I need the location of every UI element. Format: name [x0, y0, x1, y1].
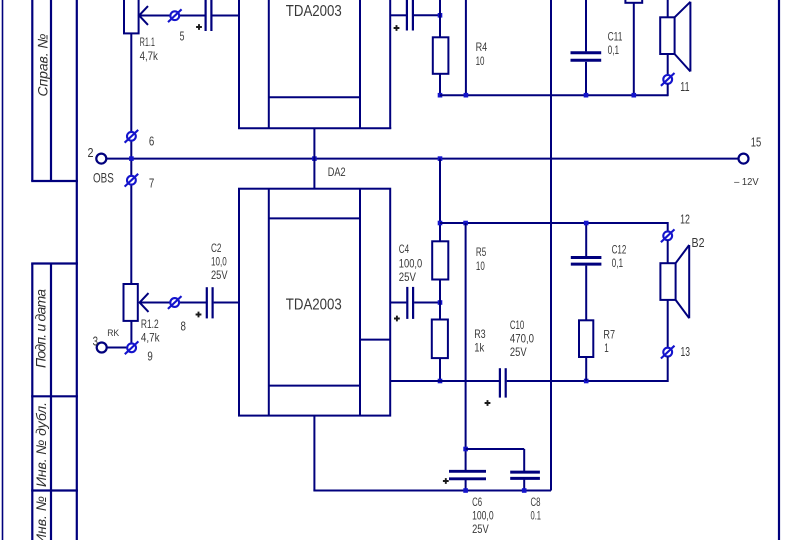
capacitor C2 10,0 25V: [196, 242, 228, 319]
capacitor C6 100,0 25V: [443, 471, 494, 536]
svg-text:2: 2: [88, 146, 94, 160]
contact 13: [661, 345, 690, 359]
resistor R4 10: [433, 37, 488, 74]
svg-text:C12: C12: [612, 244, 627, 257]
svg-text:100,0: 100,0: [472, 510, 494, 523]
svg-text:C11: C11: [608, 31, 623, 44]
svg-text:12: 12: [680, 213, 690, 227]
junction C8/bottom bus: [522, 488, 527, 493]
wire C3 to node at R4 rail: [414, 14, 440, 16]
resistor R5 10: [432, 241, 486, 279]
junction C6/bottom bus: [463, 488, 468, 493]
wire DA1 pin to C3: [390, 14, 406, 16]
svg-text:10,0: 10,0: [211, 256, 227, 269]
capacitor C1 (electrolytic, cropped label): [196, 0, 211, 31]
wire vertical feedback branch (cropped): [465, 0, 467, 95]
svg-text:OBS: OBS: [93, 169, 114, 185]
junction rail/lower bus: [438, 221, 443, 226]
terminal 15 (-12V): [734, 136, 761, 188]
wire terminal 3 to contact 9: [106, 347, 131, 349]
svg-text:DA2: DA2: [328, 166, 346, 179]
capacitor C12 0,1: [571, 223, 627, 320]
svg-text:4,7k: 4,7k: [141, 331, 160, 344]
svg-text:470,0: 470,0: [510, 333, 535, 346]
svg-text:RK: RK: [107, 328, 120, 339]
contact 6: [125, 130, 155, 149]
wire DA2 ground pin down: [313, 416, 315, 491]
junction feedback/bus: [464, 93, 469, 98]
junction R6/bus: [632, 93, 637, 98]
junction C12/bus: [584, 221, 589, 226]
wire C2 to DA2 input: [214, 302, 239, 304]
wire rail rowB top: [439, 159, 441, 242]
junction R7/output bus: [584, 379, 589, 384]
wire R3 bottom to output bus: [439, 358, 441, 381]
wire common rail -12V row: [106, 158, 739, 160]
svg-text:5: 5: [180, 30, 185, 44]
wire R1.2 bottom to contact 9: [130, 321, 132, 344]
svg-text:R1.2: R1.2: [141, 318, 159, 331]
wire DA2 output to C10: [390, 380, 499, 382]
junction C3/R4 rail: [438, 13, 443, 18]
junction bus/C6 column: [463, 221, 468, 226]
svg-text:R4: R4: [476, 41, 488, 54]
svg-text:8: 8: [181, 319, 186, 333]
terminal 2 (OBS common): [88, 146, 114, 185]
svg-text:25V: 25V: [510, 346, 527, 359]
svg-text:25V: 25V: [472, 523, 489, 536]
svg-text:C8: C8: [531, 496, 541, 509]
svg-text:B2: B2: [692, 236, 705, 250]
svg-text:TDA2003: TDA2003: [286, 3, 342, 20]
wire contact 13 to output bus corner: [667, 357, 669, 383]
wire lower mid bus: [440, 222, 668, 224]
svg-text:10: 10: [476, 260, 485, 273]
junction C11/bus: [584, 93, 589, 98]
wire R5 to R3: [439, 280, 441, 320]
op-amp U-DA1 (TDA2003, top IC, partially cropped): [238, 0, 391, 129]
loudspeaker B1: [660, 0, 690, 75]
wire upper ground bus: [440, 94, 668, 96]
svg-text:0,1: 0,1: [612, 257, 624, 270]
svg-text:25V: 25V: [211, 269, 228, 282]
svg-text:Подп. и дата: Подп. и дата: [33, 289, 49, 368]
svg-text:13: 13: [681, 345, 691, 359]
potentiometer R1.1 4,7k: [124, 0, 158, 284]
svg-text:3: 3: [93, 335, 98, 349]
wire R4 bottom to bus: [439, 74, 441, 95]
loudspeaker B2: [660, 236, 704, 318]
resistor R3 1k: [432, 320, 486, 359]
capacitor C3 (electrolytic, cropped label): [394, 0, 413, 31]
svg-text:15: 15: [751, 136, 762, 150]
svg-text:1k: 1k: [474, 341, 484, 354]
junction rail/R1 column: [129, 156, 134, 161]
svg-text:9: 9: [147, 349, 152, 363]
contact 9: [125, 341, 153, 363]
svg-text:4,7k: 4,7k: [140, 50, 158, 63]
wire rail above R4: [439, 0, 441, 37]
svg-text:C4: C4: [399, 243, 410, 256]
svg-text:R7: R7: [603, 329, 615, 342]
svg-text:0.1: 0.1: [531, 510, 542, 523]
wire C10 to speaker branch: [507, 380, 668, 382]
svg-text:TDA2003: TDA2003: [286, 296, 342, 313]
wire R1.2 wiper to C2: [140, 302, 206, 304]
wire bus corner to contact 12: [667, 222, 669, 231]
svg-text:Справ. №: Справ. №: [35, 34, 51, 97]
resistor R6 (cropped at top): [625, 0, 642, 95]
svg-text:C6: C6: [472, 496, 482, 509]
wire R1.1 wiper to C1: [139, 15, 205, 17]
junction R3/output bus: [438, 379, 443, 384]
contact 8: [168, 296, 186, 333]
svg-text:R5: R5: [476, 246, 487, 259]
svg-text:25V: 25V: [399, 271, 416, 284]
junction C6/C8 tap: [463, 447, 468, 452]
contact 11: [661, 73, 690, 94]
wire contact 11 to bus corner: [667, 84, 669, 96]
svg-text:C10: C10: [510, 319, 525, 332]
wire C8 branch horizontal: [466, 448, 525, 450]
junction R4/bus: [438, 93, 443, 98]
capacitor C4 100,0 25V: [394, 243, 423, 321]
junction C4/R5R3: [438, 300, 443, 305]
potentiometer R1.2 4,7k: [124, 284, 160, 344]
svg-text:Инв. № дубл.: Инв. № дубл.: [33, 402, 49, 487]
wire C6 column upper: [465, 223, 467, 470]
wire ground rail (long vertical): [550, 0, 552, 491]
op-amp U-DA2 (TDA2003, bottom IC): [239, 166, 390, 416]
svg-text:0,1: 0,1: [608, 44, 620, 57]
svg-text:C2: C2: [211, 242, 221, 255]
svg-text:11: 11: [680, 80, 689, 94]
svg-text:1: 1: [604, 342, 609, 355]
capacitor C11 0,1: [571, 0, 623, 95]
svg-text:7: 7: [149, 177, 154, 191]
wire contact 12 to B2: [667, 240, 669, 263]
svg-text:– 12V: – 12V: [734, 176, 759, 188]
contact 5: [168, 9, 184, 43]
wire C4 to R5/R3 node: [414, 302, 440, 304]
wire DA2 C-pin to C4: [390, 302, 406, 304]
svg-text:R3: R3: [474, 328, 486, 341]
wire DA1 ground pin to rail to DA2 pin: [313, 128, 315, 188]
resistor R7 1: [579, 320, 615, 381]
svg-text:10: 10: [476, 55, 485, 68]
svg-text:Инв. №: Инв. №: [33, 496, 49, 540]
capacitor C8 0.1: [510, 449, 541, 523]
svg-text:6: 6: [149, 134, 154, 148]
junction rail/DA pin column: [312, 156, 317, 161]
svg-text:100,0: 100,0: [399, 257, 423, 270]
capacitor C10 470,0 25V: [485, 319, 535, 406]
contact 12: [661, 213, 690, 243]
wire C1 to DA1 input: [212, 15, 239, 17]
wire B2 to contact 13: [667, 300, 669, 348]
junction rail/R4R5 column: [438, 156, 443, 161]
contact 7: [125, 174, 155, 191]
terminal 3 (RK): [93, 328, 120, 353]
svg-text:R1.1: R1.1: [140, 36, 155, 49]
wire bottom ground bus: [313, 490, 551, 492]
